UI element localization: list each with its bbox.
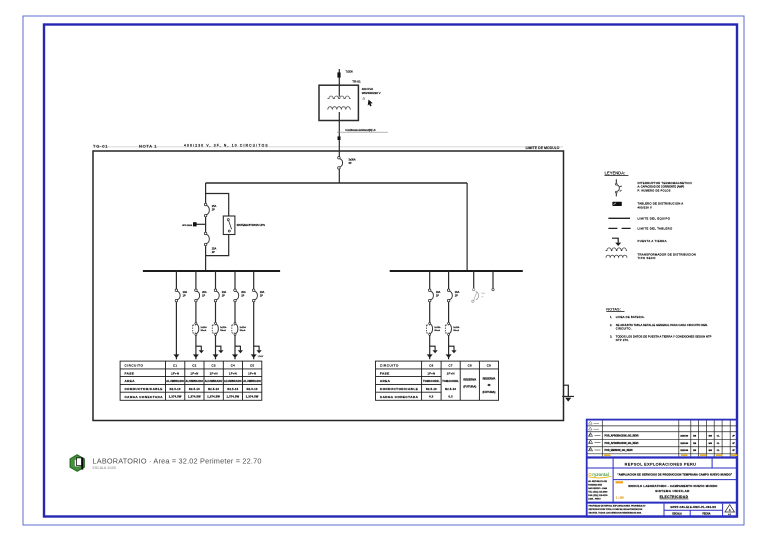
svg-text:C4: C4 (231, 364, 235, 368)
circuit C4 load arrow (232, 354, 238, 359)
bus bar right (390, 270, 523, 272)
svg-text:SISTEMA UNIFILAR: SISTEMA UNIFILAR (655, 489, 690, 493)
circuit C3 RCD 2x25A 30mA (212, 322, 227, 335)
svg-text:3-1x16mm2+1x16mm2(N) LS: 3-1x16mm2+1x16mm2(N) LS (345, 130, 376, 132)
svg-text:POR_EMISION_GG_REV0: POR_EMISION_GG_REV0 (605, 450, 634, 452)
svg-text:LABORATORIO · Area = 32.02 Per: LABORATORIO · Area = 32.02 Perimeter = 2… (93, 456, 262, 465)
circuit C2 wire to load (195, 335, 197, 354)
bus bar left (TG-01) (143, 270, 280, 272)
circuit C2 breaker 20A 1P (195, 289, 207, 302)
svg-text:C6: C6 (429, 364, 433, 368)
svg-text:1 : 100: 1 : 100 (616, 496, 624, 499)
orange annotations (616, 481, 624, 483)
svg-text:LIMITE DEL EQUIPO: LIMITE DEL EQUIPO (638, 217, 671, 221)
svg-text:SE ADJUNTA TABLA DETALLE GENER: SE ADJUNTA TABLA DETALLE GENERAL PARA CA… (616, 323, 708, 327)
svg-text:1.5kW: 1.5kW (258, 356, 264, 358)
UPS tap stub (197, 223, 206, 225)
svg-text:1P: 1P (241, 295, 244, 298)
circuit C4 wire to load (234, 335, 236, 354)
svg-text:0.3: 0.3 (429, 395, 434, 399)
svg-text:DB: DB (693, 436, 697, 438)
circuit C3 wire to RCD (215, 302, 217, 323)
main breaker 3x30A 3P (338, 157, 356, 170)
circuit C9 tap wire (492, 271, 494, 288)
circuit C5 tap wire (253, 271, 255, 289)
svg-text:1,374.5W: 1,374.5W (227, 395, 240, 399)
svg-text:TABLERO DE DISTRIBUCION A: TABLERO DE DISTRIBUCION A (638, 202, 684, 206)
wire transformer secondary (338, 112, 340, 157)
circuit C9 spare terminal (492, 288, 494, 290)
legend dashed line symbol (608, 227, 630, 229)
svg-text:25A: 25A (212, 205, 217, 208)
svg-text:21/11/09: 21/11/09 (680, 450, 689, 452)
svg-text:ALUMBRADO: ALUMBRADO (205, 380, 223, 383)
svg-text:N2.5-10: N2.5-10 (426, 388, 437, 391)
circuit C2 tap wire (195, 271, 197, 289)
svg-text:1F+N: 1F+N (248, 371, 256, 375)
svg-text:ELECTRICIDAD: ELECTRICIDAD (660, 495, 689, 499)
circuit C3 tap wire (215, 271, 217, 289)
svg-text:1F+N: 1F+N (171, 371, 179, 375)
UPS terminal block (193, 222, 197, 226)
svg-text:LIMA - PERU: LIMA - PERU (588, 497, 601, 500)
svg-text:ESCRITA. TODOS LOS DERECHOS RE: ESCRITA. TODOS LOS DERECHOS RESERVADOS 2… (589, 511, 642, 514)
svg-text:T.GEN: T.GEN (346, 71, 353, 74)
owner band REPSOL EXPLORACIONES PERU (612, 459, 614, 468)
svg-text:1.: 1. (610, 315, 612, 319)
svg-text:1,374.5W: 1,374.5W (169, 395, 182, 399)
title block bottom band (587, 502, 737, 504)
circuit C2 RCD 2x25A 30mA (193, 322, 208, 335)
svg-text:PUESTA A TIERRA: PUESTA A TIERRA (638, 239, 667, 243)
svg-text:2x25A: 2x25A (240, 326, 247, 329)
bypass switch box (SISTEMA BYPASS UPS) (223, 216, 235, 235)
breaker 25A 2P (UPS output) (204, 232, 209, 246)
svg-text:TOMACORR.: TOMACORR. (423, 380, 440, 383)
svg-text:20A: 20A (241, 291, 246, 294)
svg-text:ALUMBRADO: ALUMBRADO (166, 380, 184, 383)
svg-text:ESCALA 1/100: ESCALA 1/100 (93, 466, 116, 470)
svg-text:CONDUCTOR/CABLE: CONDUCTOR/CABLE (380, 387, 418, 391)
circuit C3 earth hook (216, 346, 221, 350)
svg-text:TODOS LOS DATOS DE PUESTA A TI: TODOS LOS DATOS DE PUESTA A TIERRA Y CON… (616, 334, 712, 338)
svg-text:400/230 V: 400/230 V (638, 205, 653, 209)
circuit C1 wire to load (175, 302, 177, 355)
circuit C8 tap wire (473, 271, 475, 288)
svg-text:DB: DB (693, 450, 697, 452)
svg-text:ryzontal: ryzontal (592, 472, 608, 477)
svg-text:REPRODUCCION TOTAL O PARCIAL S: REPRODUCCION TOTAL O PARCIAL SIN AUTORIZ… (589, 508, 643, 511)
svg-text:SAN ISIDRO - LIMA: SAN ISIDRO - LIMA (588, 487, 607, 490)
svg-text:0.3: 0.3 (449, 395, 454, 399)
svg-text:1P: 1P (202, 295, 205, 298)
legend panelboard symbol (612, 202, 621, 206)
revision approval highlights (604, 454, 611, 456)
svg-text:LEYENDA:: LEYENDA: (605, 170, 626, 175)
revision rows (589, 433, 593, 436)
svg-text:20A: 20A (202, 291, 207, 294)
svg-text:C3: C3 (212, 364, 216, 368)
svg-text:AREA: AREA (125, 379, 136, 383)
svg-text:RESERVA: RESERVA (463, 378, 476, 382)
breaker 25A 2P (UPS input) (204, 203, 216, 217)
svg-text:(FUTURA): (FUTURA) (463, 385, 476, 389)
svg-text:SISTEMA BYPASS UPS: SISTEMA BYPASS UPS (237, 223, 265, 227)
header wire (horizontal) (206, 182, 468, 184)
ground (puesta a tierra) at module boundary (562, 385, 574, 401)
stamp triangle (725, 505, 735, 512)
svg-text:N2.5-10: N2.5-10 (189, 388, 200, 391)
svg-text:1P: 1P (183, 295, 186, 298)
svg-text:PROPIEDAD DE REPSOL EXPLORACIO: PROPIEDAD DE REPSOL EXPLORACIONES. PROHI… (589, 505, 646, 508)
svg-text:25A: 25A (212, 248, 217, 251)
svg-text:FAX: (511) 215-6100: FAX: (511) 215-6100 (588, 494, 608, 497)
svg-text:2P: 2P (212, 251, 215, 254)
circuit C4 tap wire (234, 271, 236, 289)
wire bypass upper branch (206, 194, 229, 217)
circuit C5 breaker 20A 1P (252, 289, 264, 302)
svg-text:20A: 20A (222, 291, 227, 294)
circuit C6 wire to RCD (429, 302, 431, 323)
svg-text:30mA: 30mA (434, 329, 440, 332)
svg-text:C1: C1 (173, 364, 177, 368)
wire UPS output to bus (205, 246, 207, 271)
circuit C4 wire to RCD (234, 302, 236, 323)
wire bypass lower branch (206, 235, 229, 256)
transformer TR-01 (319, 85, 358, 120)
svg-text:2x25A: 2x25A (453, 326, 460, 329)
legend breaker symbol (615, 179, 622, 196)
circuit C6 earth hook (430, 346, 435, 350)
svg-text:N2.5-10: N2.5-10 (227, 388, 238, 391)
circuit C1 load arrow (173, 354, 179, 359)
wire incoming feeder (top) (338, 69, 340, 97)
circuit C4 breaker 20A 1P (234, 289, 246, 302)
circuit schedule table (right panel) (376, 361, 499, 400)
svg-text:1F+N: 1F+N (210, 371, 218, 375)
svg-text:TG-01: TG-01 (93, 144, 108, 149)
svg-text:3x30A: 3x30A (349, 158, 356, 161)
svg-text:CARGA CONECTADA: CARGA CONECTADA (125, 395, 164, 399)
svg-text:1F+N: 1F+N (447, 371, 455, 375)
svg-text:N2.5-10: N2.5-10 (208, 388, 219, 391)
circuit C5 earth hook (254, 346, 259, 350)
svg-text:MG: MG (709, 436, 713, 438)
svg-text:A: A (729, 508, 731, 512)
svg-text:INTERRUPTOR TERMOMAGNETICO: INTERRUPTOR TERMOMAGNETICO (638, 181, 693, 185)
svg-text:UPS 6kVA: UPS 6kVA (182, 224, 193, 227)
svg-text:POR_APROBACION_GG_REV1: POR_APROBACION_GG_REV1 (605, 442, 640, 445)
svg-text:1P: 1P (436, 295, 439, 298)
svg-text:3P: 3P (349, 162, 352, 165)
svg-text:1P: 1P (455, 295, 458, 298)
circuit C8 reserve breaker (open) (472, 288, 486, 302)
svg-text:LIMITE DE MODULO: LIMITE DE MODULO (526, 146, 560, 150)
svg-text:CIRCUITO.: CIRCUITO. (616, 326, 632, 330)
svg-text:1,374.5W: 1,374.5W (246, 395, 259, 399)
svg-text:1,374.5W: 1,374.5W (188, 395, 201, 399)
circuit C6 RCD 2x25A 30mA (427, 322, 442, 335)
wire left feeder drop (205, 183, 207, 203)
circuit C4 RCD 2x25A 30mA (232, 322, 247, 335)
svg-text:GPRY-C31-ELE-UNIF-PL-001-R0: GPRY-C31-ELE-UNIF-PL-001-R0 (670, 505, 716, 509)
circuit C7 breaker 16A 1P (447, 289, 459, 302)
svg-text:1F+N: 1F+N (229, 371, 237, 375)
project band (612, 468, 614, 503)
legend earth hook symbol (612, 238, 621, 246)
circuit C6 tap wire (429, 271, 431, 289)
svg-text:MODULO LABORATORIO - CAMPAMENT: MODULO LABORATORIO - CAMPAMENTO NUEVO MU… (628, 484, 718, 488)
legend transformer symbol (606, 248, 628, 258)
svg-text:Δ: Δ (362, 95, 365, 100)
svg-text:1P: 1P (260, 295, 263, 298)
svg-text:ALUMBRADO: ALUMBRADO (224, 380, 242, 383)
svg-text:CONDUCTOR/CABLE: CONDUCTOR/CABLE (125, 387, 163, 391)
svg-text:NTP 370.: NTP 370. (616, 338, 629, 342)
circuit C7 wire to RCD (448, 302, 450, 323)
svg-text:16A: 16A (436, 291, 441, 294)
svg-text:2P: 2P (212, 209, 215, 212)
circuit C3 wire to load (215, 335, 217, 354)
svg-text:MG: MG (709, 450, 713, 452)
circuit C7 RCD 2x25A 30mA (445, 322, 460, 335)
svg-text:1F+N: 1F+N (427, 371, 435, 375)
svg-text:LIMITE DEL TABLERO: LIMITE DEL TABLERO (638, 227, 673, 231)
svg-text:N2.5-10: N2.5-10 (445, 388, 456, 391)
room logo (hexagon) (70, 455, 84, 472)
svg-text:16A: 16A (481, 292, 485, 295)
circuit C5 wire to load (253, 302, 255, 355)
wire right feeder drop (466, 183, 468, 271)
cable callout leader line (337, 131, 388, 133)
svg-text:30mA: 30mA (201, 329, 207, 332)
svg-text:FASE: FASE (380, 372, 390, 376)
legend solid line symbol (608, 217, 630, 219)
svg-text:1P: 1P (222, 295, 225, 298)
svg-text:20A: 20A (260, 291, 265, 294)
wire main breaker to header (338, 169, 340, 183)
svg-text:30mA: 30mA (453, 329, 459, 332)
cursor artifact (368, 100, 373, 107)
svg-text:ESCALA: ESCALA (672, 513, 682, 516)
circuit C7 tap wire (448, 271, 450, 289)
svg-text:AV. REPUBLICA DE: AV. REPUBLICA DE (588, 480, 607, 483)
svg-text:POR_APROBACION_GG_REV0: POR_APROBACION_GG_REV0 (605, 435, 640, 438)
circuit C7 earth hook (449, 346, 454, 350)
wire between UPS breakers (205, 217, 207, 233)
svg-text:C7: C7 (449, 364, 453, 368)
svg-text:TOMACORR.: TOMACORR. (442, 380, 459, 383)
svg-text:NOTAS:: NOTAS: (606, 306, 621, 311)
svg-text:C5: C5 (250, 364, 254, 368)
svg-text:"AMPLIACION DE SERVICIOS DE PR: "AMPLIACION DE SERVICIOS DE PRODUCCION T… (617, 473, 733, 477)
circuit C2 load arrow (193, 354, 199, 359)
svg-text:FASE: FASE (125, 372, 135, 376)
svg-text:N2.5-10: N2.5-10 (170, 388, 181, 391)
svg-text:AREA: AREA (380, 379, 391, 383)
svg-text:ALUMBRADO: ALUMBRADO (243, 380, 261, 383)
svg-text:TIPO SECO: TIPO SECO (638, 256, 656, 260)
circuit C7 load arrow (446, 354, 452, 359)
circuit C3 breaker 20A 1P (214, 289, 226, 302)
svg-text:TEL: (511) 215-6000: TEL: (511) 215-6000 (588, 491, 608, 493)
svg-text:ALUMBRADO: ALUMBRADO (186, 380, 204, 383)
svg-text:MG: MG (709, 443, 713, 445)
svg-text:40: 40 (487, 383, 490, 387)
svg-text:P: NUMERO DE POLOS: P: NUMERO DE POLOS (638, 189, 671, 192)
svg-text:NOTA 1: NOTA 1 (139, 144, 157, 149)
svg-text:DB: DB (693, 443, 697, 445)
svg-text:C9: C9 (487, 364, 491, 368)
fuse mark on incoming feeder (337, 72, 340, 77)
circuit C3 load arrow (213, 354, 219, 359)
circuit C4 earth hook (235, 346, 240, 350)
svg-text:400/230 V, 3F, N, 10 CIRCUITOS: 400/230 V, 3F, N, 10 CIRCUITOS (184, 143, 269, 147)
svg-text:CARGA CONECTADA: CARGA CONECTADA (380, 395, 419, 399)
svg-text:2x25A: 2x25A (201, 326, 208, 329)
svg-text:LINEA DE BATERIA.: LINEA DE BATERIA. (616, 315, 645, 319)
svg-text:REPSOL EXPLORACIONES PERU: REPSOL EXPLORACIONES PERU (625, 462, 697, 466)
circuit schedule table (left panel) (120, 361, 262, 400)
circuit C1 breaker 20A 1P (175, 289, 187, 302)
svg-text:2x25A: 2x25A (220, 326, 227, 329)
circuit C2 earth hook (196, 346, 201, 350)
svg-text:30mA: 30mA (220, 329, 226, 332)
svg-text:(FUTURA): (FUTURA) (483, 390, 496, 394)
circuit C2 wire to RCD (195, 302, 197, 323)
circuit C6 load arrow (427, 354, 433, 359)
splice mark on secondary wire (338, 136, 341, 140)
circuit C5 load arrow (251, 354, 257, 359)
svg-text:PANAMA 3055: PANAMA 3055 (588, 483, 603, 486)
svg-text:20A: 20A (183, 291, 188, 294)
title block (587, 420, 737, 517)
svg-text:FECHA: FECHA (702, 513, 710, 516)
svg-text:16A: 16A (455, 291, 460, 294)
svg-text:A-1: A-1 (728, 513, 731, 516)
svg-text:3.: 3. (610, 334, 612, 338)
circuit C6 wire to load (429, 335, 431, 354)
circuit C7 wire to load (448, 335, 450, 354)
svg-text:C8: C8 (468, 364, 472, 368)
svg-text:TR-01: TR-01 (352, 80, 361, 84)
svg-text:2x25A: 2x25A (434, 326, 441, 329)
svg-text:TRANSFORMADOR DE DISTRIBUCION: TRANSFORMADOR DE DISTRIBUCION (638, 252, 697, 256)
circuit C6 breaker 16A 1P (428, 289, 440, 302)
svg-text:21/11/09: 21/11/09 (680, 443, 689, 445)
svg-text:1F+N: 1F+N (190, 371, 198, 375)
svg-text:CIRCUITO: CIRCUITO (380, 364, 399, 368)
circuit C1 tap wire (175, 271, 177, 289)
svg-text:N2.5-10: N2.5-10 (247, 388, 258, 391)
svg-text:A: CAPACIDAD DE CORRIENTE (AMP: A: CAPACIDAD DE CORRIENTE (AMP) (638, 186, 685, 189)
svg-text:21/11/09: 21/11/09 (680, 436, 689, 438)
svg-text:RESERVA: RESERVA (483, 377, 496, 381)
svg-text:30mA: 30mA (240, 329, 246, 332)
svg-text:2.: 2. (610, 323, 612, 327)
svg-text:C2: C2 (192, 364, 196, 368)
module boundary rectangle (LIMITE DE MODULO) (93, 147, 564, 421)
svg-text:1,374.5W: 1,374.5W (207, 395, 220, 399)
svg-text:CIRCUITO: CIRCUITO (125, 364, 144, 368)
